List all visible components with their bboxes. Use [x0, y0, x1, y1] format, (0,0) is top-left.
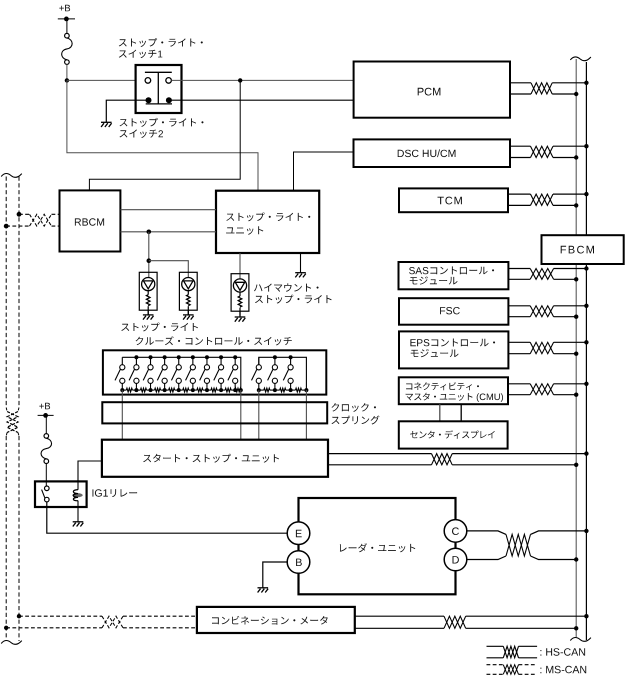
center display box: [399, 421, 508, 448]
junction FSC CAN-H to bus: [584, 304, 588, 308]
MS-CAN bus continuation mark top: [1, 174, 22, 178]
wire relay coil to ground: [77, 501, 79, 522]
wire combination meter HS-CAN 1: [355, 615, 587, 617]
label PCM: [418, 88, 441, 96]
wire RBCM MS-CAN 1 (dashed): [19, 213, 60, 215]
power +B (battery feed 2): [38, 403, 54, 434]
ground G3 (lamp L2): [183, 310, 194, 319]
stop light unit box: [216, 191, 319, 253]
wire combination meter HS-CAN 2: [355, 627, 576, 629]
cruise group1 ladder end junction: [120, 388, 243, 392]
junction DSC CAN-H to bus: [584, 144, 588, 148]
ground G1 (switch SW2): [101, 122, 112, 127]
wire start stop unit CAN-L: [328, 464, 576, 466]
label cruise control switch: [136, 336, 292, 345]
SAS control module box: [399, 262, 509, 289]
radar terminal D: [444, 548, 467, 571]
junction start stop CAN-H to bus: [584, 451, 588, 455]
junction RBCM MS-CAN 2 to bus: [4, 224, 9, 229]
cruise group2 ladder end junction: [257, 388, 309, 392]
label IG1 relay: [93, 489, 138, 497]
wire start stop unit CAN-H: [328, 453, 586, 455]
wire stop light unit to ground: [300, 253, 302, 273]
junction start stop CAN-L to bus: [574, 463, 578, 467]
label stop light unit: [226, 212, 310, 234]
label FBCM: [561, 246, 594, 254]
twisted pair PCM: [531, 83, 552, 94]
twisted pair start stop unit: [432, 454, 453, 465]
switch SW1 contact right (open): [166, 78, 172, 84]
wire node C to stop light L1: [148, 232, 150, 278]
wire SW1 to PCM: [171, 79, 353, 81]
wire cruise group2 common out: [305, 390, 307, 440]
DSC HU/CM box: [354, 139, 511, 167]
label stop light switch 1: [119, 38, 203, 58]
wire radar B to ground: [263, 562, 287, 588]
wire node D to stop light L2: [149, 261, 189, 278]
connectivity master unit (CMU) box: [399, 377, 508, 404]
label clock spring: [332, 403, 380, 424]
wire combination meter MS-CAN 2 (dashed): [6, 627, 197, 629]
wire cruise group1 common out: [240, 390, 242, 440]
junction TCM CAN-L to bus: [574, 203, 578, 207]
relay contact top: [45, 486, 50, 491]
clock spring box: [102, 402, 327, 423]
legend label HS-CAN: [540, 648, 585, 656]
wire stop light unit to high mount lamp: [239, 253, 241, 279]
ground G6 (relay coil): [73, 522, 84, 527]
relay contact bottom: [45, 497, 50, 502]
twisted pair SAS: [530, 269, 553, 280]
label radar unit: [340, 543, 415, 552]
label stop light: [121, 323, 198, 332]
stop light lamp L1: [139, 272, 157, 314]
wire relay to radar terminal E: [47, 502, 287, 533]
wire EPS CAN-H: [508, 341, 586, 343]
fuse F1: [62, 33, 73, 64]
node A junction: [65, 78, 69, 82]
wire node A to stop light unit: [67, 80, 258, 190]
junction meter HS-CAN 2 to bus: [574, 626, 578, 630]
legend HS-CAN symbol: [487, 646, 538, 658]
twisted pair TCM: [531, 194, 554, 205]
high mount stop light lamp L3: [231, 274, 249, 316]
label stop light switch 2: [120, 118, 204, 138]
label TCM: [438, 197, 462, 205]
bus continuation mark bottom: [570, 638, 591, 642]
junction meter MS-CAN 2 to bus: [4, 626, 8, 630]
junction radar C to bus: [584, 529, 588, 533]
cruise group2 ladder rail with resistors: [259, 388, 307, 392]
twisted pair DSC: [531, 146, 554, 157]
wire SAS CAN-H: [508, 268, 586, 270]
wire EPS CAN-L: [508, 353, 576, 355]
label EPS control module: [410, 339, 495, 358]
cruise group1 switches: [115, 357, 238, 390]
relay contact lever: [42, 490, 45, 498]
cruise control switch box: [103, 350, 326, 394]
wire FSC CAN-H: [508, 305, 586, 307]
label start stop unit: [143, 454, 279, 463]
wire RBCM to stop light unit 2: [120, 231, 216, 233]
wire CMU CAN-H: [508, 383, 586, 385]
radar unit box: [299, 498, 456, 594]
wire TCM CAN-H: [508, 193, 586, 195]
junction TCM CAN-H to bus: [584, 192, 588, 196]
relay coil: [72, 490, 82, 501]
switch actuator T-bar: [145, 72, 172, 104]
legend MS-CAN symbol: [487, 665, 538, 675]
wire FSC CAN-L: [508, 316, 576, 318]
wire MS-CAN bus line 1 (dashed): [5, 177, 7, 642]
junction EPS CAN-H to bus: [584, 340, 588, 344]
wire combination meter MS-CAN 1 (dashed): [19, 615, 197, 617]
junction DSC CAN-L to bus: [574, 155, 578, 159]
cruise group2 ladder junctions: [273, 388, 293, 392]
wire node A to stop light switch: [67, 79, 145, 81]
label FSC: [440, 307, 460, 314]
cruise group1 rail junctions: [134, 355, 237, 359]
wire node B to RBCM: [89, 80, 240, 190]
twisted pair combination meter HS-CAN: [444, 616, 466, 628]
PCM box: [354, 62, 510, 118]
node B junction on SW1-PCM wire: [238, 78, 242, 82]
junction CMU CAN-H to bus: [584, 382, 588, 386]
junction SAS CAN-L to bus: [574, 277, 578, 281]
wire SW2 to PCM: [169, 99, 354, 101]
wire PCM CAN-L: [510, 93, 576, 95]
junction RBCM MS-CAN 1 to bus: [17, 212, 22, 217]
power +B (battery feed 1): [58, 5, 75, 34]
radar terminal C: [444, 520, 467, 543]
twisted pair combination meter MS-CAN (dashed): [102, 616, 123, 628]
FBCM box: [542, 235, 624, 264]
wire CMU CAN-L: [508, 394, 576, 396]
cruise group1 ladder junctions: [134, 388, 237, 392]
cruise group2 rail junctions: [273, 355, 293, 359]
label center display: [410, 430, 495, 438]
wire TCM CAN-L: [508, 204, 576, 206]
twisted pair radar C/D: [506, 534, 531, 556]
junction radar D to bus: [574, 557, 578, 561]
MS-CAN bus continuation mark bottom: [1, 641, 22, 645]
wire SW2 to ground: [106, 100, 148, 122]
label high mount stop light: [254, 283, 332, 303]
wire radar C to bus: [467, 531, 587, 535]
wire cruise group1 ladder out: [121, 390, 123, 440]
label RBCM: [75, 218, 104, 225]
cruise group2 switches: [252, 357, 294, 390]
wire start stop unit to relay coil: [78, 461, 102, 490]
label SAS control module: [409, 266, 494, 284]
label combination meter: [212, 616, 328, 625]
wire MS-CAN bus line 2 (dashed): [18, 177, 20, 642]
cruise group2 common rail: [259, 357, 307, 390]
junction SAS CAN-H to bus: [584, 266, 588, 270]
junction EPS CAN-L to bus: [574, 352, 578, 356]
ground G5 (stop light unit): [295, 273, 306, 278]
IG1 relay box: [35, 481, 87, 507]
wire DSC CAN-L: [510, 157, 576, 159]
wire CMU to center display 2: [460, 404, 462, 421]
wire radar D to bus: [467, 556, 576, 560]
junction FSC CAN-L to bus: [574, 315, 578, 319]
wire DSC CAN-H: [510, 145, 586, 147]
wire cruise group2 ladder out: [258, 390, 260, 440]
RBCM box: [60, 190, 121, 251]
EPS control module box: [399, 331, 508, 368]
wire PCM CAN-H: [510, 82, 586, 84]
twisted pair FSC: [530, 306, 553, 317]
twisted pair EPS: [530, 342, 553, 353]
node D junction: [147, 258, 152, 263]
junction PCM CAN-L to bus: [574, 92, 578, 96]
bus continuation mark top: [570, 57, 591, 61]
junction PCM CAN-H to bus: [584, 81, 588, 85]
node C junction: [147, 230, 152, 235]
twisted pair RBCM (dashed): [30, 214, 52, 226]
twisted pair CMU: [530, 384, 553, 395]
legend label MS-CAN: [540, 666, 586, 674]
radar terminal B: [287, 551, 310, 574]
FSC box: [399, 298, 508, 325]
wire SAS CAN-L: [508, 278, 576, 280]
wire fuse F2 to relay: [45, 464, 47, 487]
junction meter MS-CAN 1 to bus: [17, 614, 21, 618]
label connectivity master unit: [406, 382, 503, 402]
ground G7 (radar B): [258, 588, 269, 593]
start stop unit box: [102, 440, 328, 477]
cruise group1 ladder rail with resistors: [122, 388, 241, 392]
junction meter HS-CAN 1 to bus: [584, 614, 588, 618]
wire CMU to center display 1: [439, 404, 441, 421]
switch SW2 contact left (closed): [146, 97, 152, 103]
wire RBCM MS-CAN 2 (dashed): [6, 225, 59, 227]
ground G4 (lamp L3): [235, 311, 246, 322]
combination meter box: [197, 607, 355, 633]
wire fuse F1 to node A: [66, 64, 68, 80]
wire HS-CAN bus line 2 (CAN-L): [585, 62, 587, 640]
radar terminal E: [287, 522, 310, 545]
twisted section MS-CAN bus (dashed): [6, 408, 19, 437]
TCM box: [399, 188, 508, 212]
label DSC HU/CM: [398, 149, 456, 157]
switch SW2 contact right (closed): [166, 97, 172, 103]
junction CMU CAN-L to bus: [574, 393, 578, 397]
ground G2 (lamp L1): [143, 310, 154, 319]
wire DSC HU/CM to stop light unit: [294, 152, 354, 191]
stop light switch SW1/SW2 box: [136, 65, 182, 113]
wire RBCM to stop light unit 1: [120, 209, 216, 211]
stop light lamp L2: [179, 272, 197, 314]
fuse F2: [41, 434, 52, 464]
cruise group1 common rail: [122, 357, 241, 394]
wire HS-CAN bus line 1 (CAN-H): [575, 59, 577, 637]
switch SW1 contact left (open): [145, 78, 151, 84]
